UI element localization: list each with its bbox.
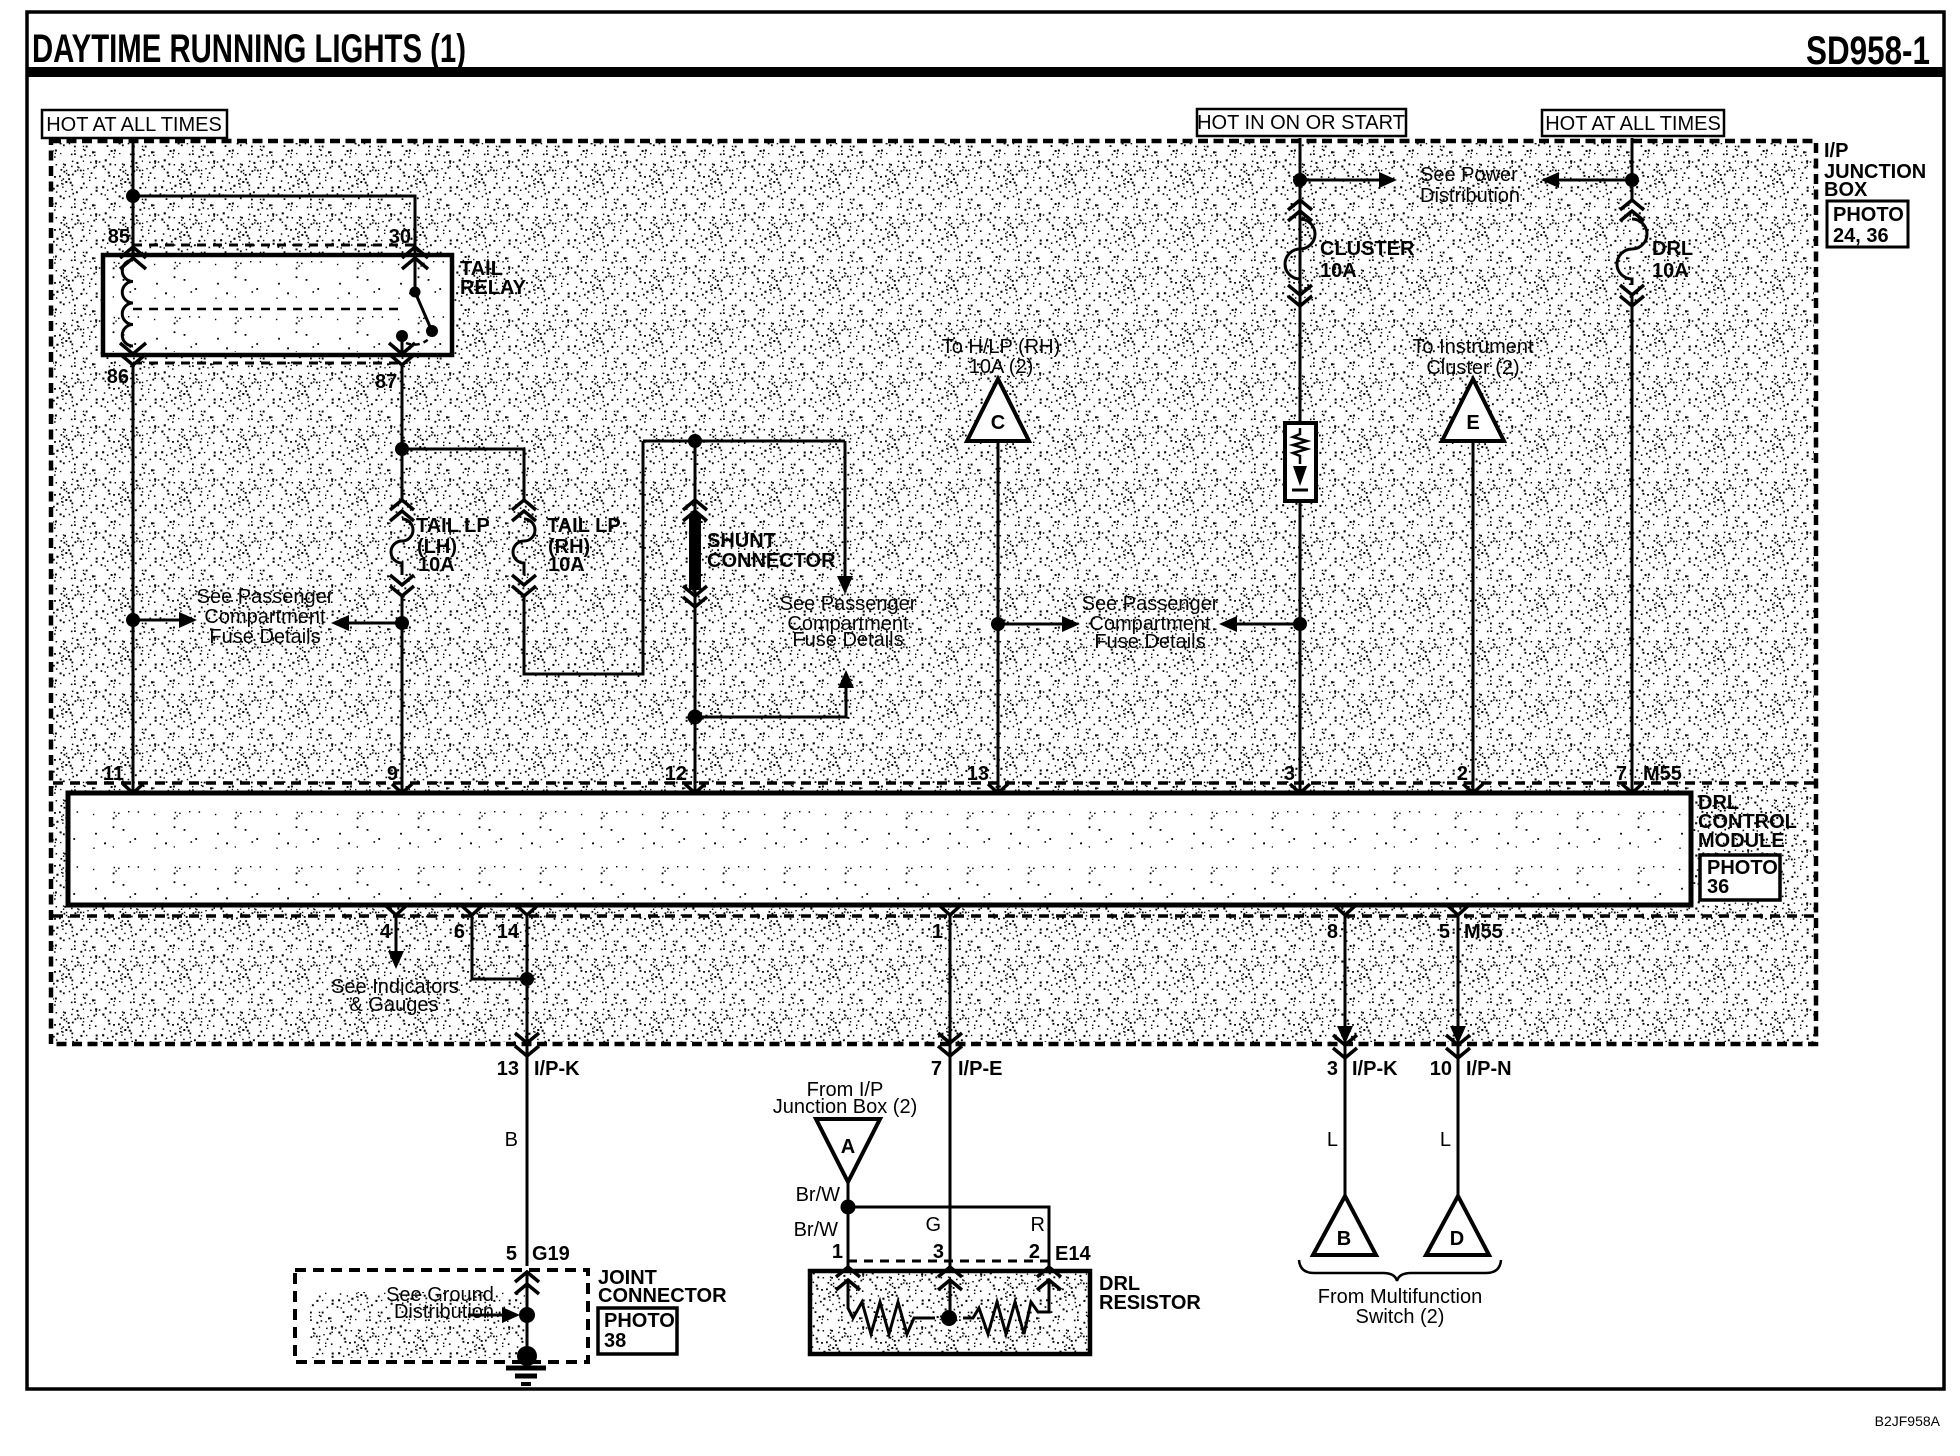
label TAIL LP (RH) 10A: [547, 515, 621, 576]
node: dot on DRL wire at power distribution: [1625, 173, 1639, 187]
label 3 I/P-K: [1327, 1058, 1398, 1080]
relay pin dashed line (bottom): [133, 362, 402, 365]
module pin 3 chevron: [1290, 784, 1310, 793]
svg-text:9: 9: [387, 763, 398, 785]
svg-text:Distribution: Distribution: [394, 1301, 494, 1323]
node: junction dot on left feed: [126, 189, 140, 203]
I/P JUNCTION BOX label: [1824, 140, 1926, 201]
svg-text:I/P-K: I/P-K: [1352, 1058, 1398, 1080]
node: junction dot on pin-9 wire at fuse-details arrow: [395, 616, 409, 630]
wire: relay pin 86 down to module pin 11: [132, 365, 135, 793]
svg-text:From Multifunction: From Multifunction: [1318, 1286, 1483, 1308]
svg-text:CONNECTOR: CONNECTOR: [707, 550, 836, 572]
DRL control module box: [68, 793, 1691, 905]
text See Indicators & Gauges: [331, 976, 459, 1016]
relay switch contact: [396, 258, 438, 352]
arrow: pin 5 wire at I/P border: [1450, 1026, 1466, 1044]
wire: RH fuse to shunt riser: [524, 441, 643, 674]
module bottom pin dashed line: [53, 914, 1814, 918]
node: dot on cluster wire at fuse-details arrow: [1293, 617, 1307, 631]
svg-text:See Power: See Power: [1420, 164, 1518, 186]
svg-text:I/P-N: I/P-N: [1466, 1058, 1512, 1080]
node: dot at distribution arrow: [519, 1307, 535, 1323]
svg-text:8: 8: [1327, 921, 1338, 943]
fuse TAIL LP (RH) 10A: [512, 500, 536, 596]
module pin 1 chevron: [940, 906, 960, 915]
svg-text:10A: 10A: [548, 554, 585, 576]
module pin 7 chevron: [1622, 784, 1642, 793]
text See Passenger Compartment Fuse Details (right): [1082, 593, 1219, 653]
SHUNT CONNECTOR label: [707, 530, 836, 572]
svg-text:SD958-1: SD958-1: [1806, 29, 1930, 73]
text To Instrument Cluster (2): [1412, 336, 1534, 379]
node: dot on cluster wire at power distribution: [1293, 173, 1307, 187]
HOT AT ALL TIMES box (right): [1542, 110, 1724, 136]
module pin 5 chevron: [1448, 906, 1468, 915]
svg-text:3: 3: [1284, 763, 1295, 785]
fuse TAIL LP (LH) 10A: [390, 500, 414, 596]
I/P junction box dashed border: [51, 141, 1816, 1044]
tail relay coil: [122, 260, 133, 346]
svg-text:10A: 10A: [1652, 260, 1689, 282]
arrow: see ground distribution to wire: [468, 1307, 520, 1323]
svg-text:Compartment: Compartment: [204, 606, 326, 628]
connector triangle B: [1313, 1196, 1376, 1255]
JOINT CONNECTOR label: [598, 1267, 727, 1307]
svg-text:5: 5: [1439, 921, 1450, 943]
label 7 I/P-E: [931, 1058, 1003, 1080]
svg-text:E: E: [1466, 412, 1479, 434]
thick rule under title: [26, 67, 1945, 77]
svg-text:B2JF958A: B2JF958A: [1875, 1413, 1941, 1429]
svg-text:7: 7: [1616, 763, 1627, 785]
arrow: up into See Passenger (mid) from below: [695, 670, 854, 717]
DRL RESISTOR label: [1099, 1273, 1201, 1314]
svg-text:E14: E14: [1055, 1243, 1091, 1265]
svg-text:HOT IN ON OR START: HOT IN ON OR START: [1197, 112, 1405, 134]
svg-text:HOT AT ALL TIMES: HOT AT ALL TIMES: [46, 114, 222, 136]
breaker box on cluster wire: [1285, 423, 1316, 501]
wire: module pin 6 jog to pin 14 wire: [472, 915, 527, 979]
wire: module pin 8 down to triangle B: [1344, 915, 1347, 1196]
svg-text:B: B: [505, 1129, 518, 1151]
svg-text:See Passenger: See Passenger: [780, 593, 917, 615]
arrow right from C wire to fuse details (right): [998, 616, 1080, 632]
resistor element left: [848, 1280, 935, 1334]
arrow: module pin 4 down to See Indicators: [388, 915, 404, 969]
svg-text:See Passenger: See Passenger: [1082, 593, 1219, 615]
svg-text:1: 1: [832, 1241, 843, 1263]
chevron: I/P border crossing at 7 I/P-E: [938, 1033, 962, 1056]
module pin 9 chevron: [392, 784, 412, 793]
svg-text:DRL: DRL: [1652, 238, 1693, 260]
svg-text:& Gauges: & Gauges: [350, 994, 439, 1016]
svg-text:To H/LP (RH): To H/LP (RH): [942, 336, 1061, 358]
HOT AT ALL TIMES box (left): [42, 110, 227, 138]
text See Passenger Compartment Fuse Details (left): [197, 586, 334, 648]
wire: top run to see-passenger drop: [643, 440, 845, 443]
wire: C down to module pin 13: [997, 441, 1000, 793]
PHOTO 38 box: [598, 1308, 677, 1354]
svg-text:A: A: [841, 1136, 855, 1158]
module pin 12 chevron: [685, 784, 705, 793]
module pin 2 chevron: [1463, 784, 1483, 793]
svg-text:C: C: [991, 412, 1005, 434]
svg-text:G19: G19: [532, 1243, 570, 1265]
svg-text:10A: 10A: [1320, 260, 1357, 282]
svg-text:2: 2: [1457, 763, 1468, 785]
chevron: G19 joint connector pin: [515, 1272, 539, 1294]
wire: module pin 14 down through I/P border: [526, 915, 529, 1266]
svg-text:Fuse Details: Fuse Details: [792, 629, 903, 651]
PHOTO 36 box: [1700, 855, 1780, 900]
module pin 13 chevron: [988, 784, 1008, 793]
svg-text:I/P-E: I/P-E: [958, 1058, 1002, 1080]
DRL resistor box: [810, 1271, 1090, 1354]
svg-text:D: D: [1450, 1228, 1464, 1250]
wire: E down to module pin 2: [1472, 441, 1475, 793]
svg-text:R: R: [1031, 1214, 1045, 1236]
relay pin dashed line (top): [133, 244, 415, 247]
svg-text:Fuse Details: Fuse Details: [1094, 631, 1205, 653]
svg-text:13: 13: [497, 1058, 519, 1080]
label CLUSTER 10A: [1320, 238, 1415, 282]
module pin 14 chevron: [517, 906, 537, 915]
wire: relay pin 87 down: [401, 365, 404, 500]
svg-text:3: 3: [1327, 1058, 1338, 1080]
svg-text:M55: M55: [1643, 763, 1682, 785]
arrow: pin 8 wire at I/P border: [1337, 1026, 1353, 1044]
module pin 8 chevron: [1335, 906, 1355, 915]
svg-text:TAIL LP: TAIL LP: [547, 515, 621, 537]
connector triangle C: [967, 379, 1029, 441]
wire: breaker box down to module pin 3: [1299, 501, 1302, 793]
ground symbol: [506, 1346, 546, 1384]
svg-text:14: 14: [497, 921, 520, 943]
wire: DRL fuse down to module pin 7: [1631, 296, 1634, 793]
svg-text:Junction Box (2): Junction Box (2): [773, 1096, 918, 1118]
wire: module pin 5 down to triangle D: [1457, 915, 1460, 1196]
svg-text:5: 5: [506, 1243, 517, 1265]
svg-text:L: L: [1440, 1129, 1451, 1151]
svg-text:M55: M55: [1464, 921, 1503, 943]
svg-text:85: 85: [108, 226, 130, 248]
svg-text:PHOTO: PHOTO: [604, 1310, 675, 1332]
svg-text:12: 12: [665, 763, 687, 785]
svg-text:CONNECTOR: CONNECTOR: [598, 1285, 727, 1307]
node: junction dot pin6/pin14: [520, 972, 534, 986]
svg-text:See Passenger: See Passenger: [197, 586, 334, 608]
svg-text:Br/W: Br/W: [796, 1184, 841, 1206]
svg-text:1: 1: [932, 921, 943, 943]
svg-text:24, 36: 24, 36: [1833, 225, 1889, 247]
TAIL RELAY label: [460, 258, 527, 299]
text To H/LP (RH) 10A (2): [942, 336, 1061, 378]
module top pin dashed line: [53, 781, 1814, 785]
svg-text:TAIL LP: TAIL LP: [416, 515, 490, 537]
svg-text:B: B: [1337, 1228, 1351, 1250]
svg-text:Fuse Details: Fuse Details: [209, 626, 320, 648]
svg-text:BOX: BOX: [1824, 179, 1868, 201]
text From I/P Junction Box (2): [773, 1079, 918, 1118]
JOINT CONNECTOR dashed box: [295, 1270, 588, 1362]
wire: module pin 1 down through I/P border to DRL resistor pin 3: [949, 915, 952, 1266]
text See Power Distribution: [1420, 164, 1520, 207]
relay internal dashed link: [133, 308, 402, 311]
svg-text:I/P: I/P: [1824, 140, 1848, 162]
svg-text:DAYTIME RUNNING LIGHTS (1): DAYTIME RUNNING LIGHTS (1): [32, 27, 466, 71]
svg-text:10: 10: [1430, 1058, 1452, 1080]
pin 87 chevron: [389, 343, 415, 365]
module pin 6 chevron: [462, 906, 482, 915]
svg-text:RELAY: RELAY: [460, 277, 527, 299]
resistor pin dashed line: [848, 1260, 1049, 1263]
node: junction dot above shunt: [688, 434, 702, 448]
wire: LH fuse down to module pin 9: [401, 596, 404, 793]
svg-text:11: 11: [103, 763, 124, 785]
label DRL 10A: [1652, 238, 1693, 282]
svg-text:6: 6: [454, 921, 465, 943]
svg-text:36: 36: [1707, 876, 1729, 898]
svg-text:10A: 10A: [418, 554, 455, 576]
fuse CLUSTER 10A: [1285, 200, 1315, 306]
arrow right from cluster wire to See Power Distribution: [1300, 172, 1397, 188]
node: resistor center dot: [941, 1310, 957, 1326]
tail relay box: [103, 255, 452, 355]
svg-text:86: 86: [107, 366, 129, 388]
I/P junction box speckled interior: [53, 143, 1814, 1042]
brace under triangles B and D: [1299, 1260, 1501, 1281]
svg-text:10A (2): 10A (2): [969, 356, 1033, 378]
PHOTO 24,36 box: [1827, 201, 1908, 247]
wire: resistor pin 3 stub: [949, 1280, 952, 1318]
svg-text:Distribution: Distribution: [1420, 185, 1520, 207]
svg-text:SHUNT: SHUNT: [707, 530, 776, 552]
svg-text:HOT AT ALL TIMES: HOT AT ALL TIMES: [1545, 113, 1721, 135]
svg-text:RESISTOR: RESISTOR: [1099, 1292, 1201, 1314]
node: dot on pin-11 wire at fuse-details arrow: [126, 613, 140, 627]
wire: branch to TAIL LP (RH) fuse: [402, 449, 524, 500]
arrow left from CLUSTER wire to fuse details (right): [1219, 616, 1300, 632]
svg-text:MODULE: MODULE: [1698, 830, 1785, 852]
chevron: resistor pin 2: [1037, 1267, 1061, 1290]
svg-text:38: 38: [604, 1330, 626, 1352]
shunt connector: [683, 441, 707, 793]
wire: Br/W branch over to resistor pin 2: [848, 1207, 1049, 1266]
chevron: I/P border crossing at 3 I/P-K: [1333, 1035, 1357, 1058]
svg-text:87: 87: [375, 371, 397, 393]
node: dot on C wire: [991, 617, 1005, 631]
DRL CONTROL MODULE label: [1698, 792, 1797, 852]
node: Br/W junction dot: [841, 1200, 856, 1215]
arrow to See Passenger Compartment Fuse Details (left): [133, 612, 197, 628]
svg-text:L: L: [1327, 1129, 1338, 1151]
wire: A down to DRL resistor pin 1: [847, 1182, 850, 1266]
label 10 I/P-N: [1430, 1058, 1512, 1080]
svg-text:Switch (2): Switch (2): [1356, 1306, 1445, 1328]
wire: branch from junction to relay pin 30: [133, 196, 415, 255]
svg-text:I/P-K: I/P-K: [534, 1058, 580, 1080]
node: junction dot below shunt: [688, 710, 703, 725]
text From Multifunction Switch (2): [1318, 1286, 1483, 1328]
svg-text:7: 7: [931, 1058, 942, 1080]
module pin 11 chevron: [123, 784, 143, 793]
arrow: drop down to See Passenger (mid) from above: [837, 441, 853, 594]
connector triangle A: [816, 1119, 880, 1182]
fuse DRL 10A: [1617, 200, 1647, 306]
arrow from tail-lp-lh wire to fuse details text: [331, 615, 402, 631]
arrow left from DRL wire to See Power Distribution: [1541, 172, 1632, 188]
HOT IN ON OR START box: [1197, 109, 1406, 136]
svg-text:Br/W: Br/W: [794, 1219, 839, 1241]
module pin 4 chevron: [386, 906, 406, 915]
svg-text:To Instrument: To Instrument: [1412, 336, 1534, 358]
svg-text:CLUSTER: CLUSTER: [1320, 238, 1415, 260]
chevron: I/P border crossing at 10 I/P-N: [1446, 1035, 1470, 1058]
text See Passenger Compartment Fuse Details (mid): [780, 593, 917, 651]
label TAIL LP (LH) 10A: [416, 515, 490, 576]
svg-text:30: 30: [389, 226, 411, 248]
connector triangle E: [1442, 379, 1504, 441]
resistor element right: [963, 1280, 1049, 1334]
connector triangle D: [1426, 1196, 1489, 1255]
svg-text:4: 4: [380, 921, 392, 943]
chevron: resistor pin 1: [836, 1267, 860, 1290]
pin 86 chevron: [120, 343, 146, 365]
pin 85 chevron: [120, 247, 146, 269]
label 13 I/P-K: [497, 1058, 580, 1080]
svg-text:PHOTO: PHOTO: [1833, 204, 1904, 226]
svg-text:13: 13: [967, 763, 989, 785]
wire: left feed from HOT AT ALL TIMES down to relay pin 85: [132, 138, 135, 255]
svg-text:G: G: [925, 1214, 941, 1236]
wire: HOT IN ON OR START down (cluster branch): [1299, 138, 1302, 423]
chevron: I/P border crossing at 13 I/P-K: [515, 1033, 539, 1056]
text See Ground Distribution: [386, 1284, 494, 1323]
wire: HOT AT ALL TIMES (right) down (DRL branch): [1631, 138, 1634, 200]
pin 30 chevron: [402, 247, 428, 269]
node: junction dot under pin 87: [395, 442, 409, 456]
wire: G19 down to ground: [526, 1272, 529, 1356]
chevron: resistor pin 3: [938, 1267, 962, 1290]
